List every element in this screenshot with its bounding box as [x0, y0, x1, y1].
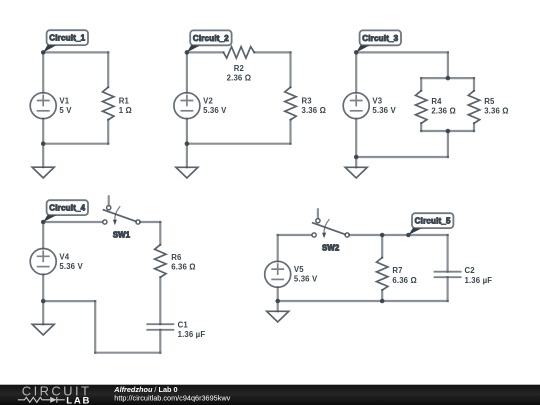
- node bottom left C5: [275, 299, 280, 304]
- voltage source V3: [343, 93, 369, 119]
- label R4 2.36 ohm: [431, 97, 456, 116]
- label V4 5.36 V: [59, 252, 83, 271]
- svg-text:5.36 V: 5.36 V: [294, 275, 318, 284]
- wire C2 bottom: [447, 277, 449, 301]
- resistor R5: [468, 91, 479, 124]
- wire right branch to R3: [289, 52, 291, 87]
- wire C1 bottom: [159, 330, 161, 353]
- wire bottom rail C5: [278, 300, 448, 302]
- wire top rail left C2: [187, 51, 224, 53]
- svg-text:R2: R2: [234, 64, 245, 73]
- svg-text:LAB: LAB: [66, 395, 91, 405]
- label V1 5 V: [59, 97, 72, 116]
- wire R7 bottom: [381, 290, 383, 301]
- wire right branch to R1: [107, 52, 109, 87]
- node parallel bottom: [446, 129, 451, 134]
- callout Circuit_3: [356, 30, 401, 52]
- svg-text:R5: R5: [484, 97, 495, 106]
- wire R3 bottom: [289, 120, 291, 144]
- wire R1 bottom: [107, 120, 109, 144]
- svg-text:6.36 Ω: 6.36 Ω: [171, 262, 196, 271]
- ground: [32, 144, 54, 178]
- wire bottom rail C1: [43, 143, 108, 145]
- wire bottom rail C2: [187, 143, 291, 145]
- node callout anchor C5: [406, 233, 411, 238]
- wire bottom rail right C4: [95, 352, 160, 354]
- label R2 2.36 ohm: [227, 64, 252, 83]
- node bottom C1: [41, 141, 46, 146]
- wire top rail C1: [43, 51, 108, 53]
- svg-text:C2: C2: [465, 266, 476, 275]
- svg-text:1.36 µF: 1.36 µF: [465, 276, 493, 285]
- node R7 top: [380, 233, 385, 238]
- node top C4: [41, 220, 46, 225]
- wire top rail C4: [43, 221, 103, 223]
- svg-text:3.36 Ω: 3.36 Ω: [302, 106, 327, 115]
- voltage source V5: [265, 261, 291, 287]
- svg-text:5.36 V: 5.36 V: [59, 262, 83, 271]
- node top C1: [41, 50, 46, 55]
- ground: [32, 301, 54, 335]
- wire V3 bottom: [355, 119, 357, 157]
- wire V2 bottom: [186, 119, 188, 144]
- voltage source V2: [174, 93, 200, 119]
- wire left branch to V5: [277, 235, 279, 261]
- svg-text:http://circuitlab.com/c94q6r36: http://circuitlab.com/c94q6r3695kwv: [114, 394, 230, 403]
- svg-text:5 V: 5 V: [59, 106, 72, 115]
- callout Circuit_5: [408, 213, 453, 235]
- footer bar: [0, 383, 540, 405]
- node bottom C2: [185, 141, 190, 146]
- wire left branch to V2: [186, 52, 188, 92]
- label C2 1.36 uF: [465, 266, 493, 285]
- svg-text:SW2: SW2: [322, 243, 340, 252]
- svg-text:Circuit_4: Circuit_4: [49, 204, 85, 213]
- wire R4 bottom stub: [420, 123, 422, 131]
- label C1 1.36 uF: [178, 320, 206, 339]
- wire R4 top stub: [420, 78, 422, 91]
- svg-text:5.36 V: 5.36 V: [203, 106, 227, 115]
- wire mid branch down: [447, 52, 449, 78]
- wire bottom rail left C4: [43, 300, 95, 302]
- callout Circuit_4: [43, 200, 88, 222]
- wire V5 bottom: [277, 287, 279, 301]
- svg-text:SW1: SW1: [113, 230, 131, 239]
- svg-text:R3: R3: [302, 97, 313, 106]
- node parallel top: [446, 76, 451, 81]
- switch SW2: [312, 209, 349, 238]
- node R7 bottom: [380, 299, 385, 304]
- label R1 1 ohm: [119, 97, 132, 116]
- resistor R6: [155, 245, 166, 278]
- label V5 5.36 V: [294, 265, 318, 284]
- svg-text:Circuit_5: Circuit_5: [415, 217, 451, 226]
- svg-text:1 Ω: 1 Ω: [119, 106, 132, 115]
- wire left branch to V3: [355, 52, 357, 92]
- wire right branch to R6: [159, 222, 161, 245]
- ground: [176, 144, 198, 178]
- svg-text:C1: C1: [178, 320, 189, 329]
- wire top rail right C2: [254, 51, 290, 53]
- wire left branch to V4: [42, 222, 44, 249]
- wire V1 bottom: [42, 119, 44, 144]
- logo schematic glyph: [18, 397, 65, 403]
- wire R6 to C1: [159, 277, 161, 324]
- wire R5 top stub: [473, 78, 475, 91]
- node bottom C4: [41, 299, 46, 304]
- svg-text:R7: R7: [392, 266, 402, 275]
- switch SW1: [103, 196, 140, 225]
- wire parallel top bar: [421, 77, 474, 79]
- label R5 3.36 ohm: [484, 97, 509, 116]
- wire switch right to corner: [140, 221, 160, 223]
- resistor R4: [416, 91, 427, 124]
- label V3 5.36 V: [372, 97, 396, 116]
- node top C3: [354, 50, 359, 55]
- callout Circuit_1: [43, 30, 88, 52]
- wire R5 bottom stub: [473, 123, 475, 131]
- resistor R7: [377, 258, 388, 291]
- wire R7 top: [381, 235, 383, 258]
- label V2 5.36 V: [203, 97, 227, 116]
- resistor R3: [285, 87, 296, 120]
- wire mid branch bottom: [447, 131, 449, 157]
- wire top rail C3: [356, 51, 448, 53]
- voltage source V1: [30, 93, 56, 119]
- svg-text:V4: V4: [59, 252, 69, 261]
- svg-text:R1: R1: [119, 97, 130, 106]
- svg-text:R4: R4: [431, 97, 442, 106]
- wire bottom riser C4: [94, 301, 96, 353]
- svg-text:V2: V2: [203, 97, 213, 106]
- wire top rail left C5: [278, 234, 312, 236]
- label R3 3.36 ohm: [302, 97, 327, 116]
- capacitor C1: [147, 324, 173, 330]
- svg-text:V3: V3: [372, 97, 382, 106]
- voltage source V4: [30, 249, 56, 275]
- svg-text:V5: V5: [294, 265, 304, 274]
- node top C2: [185, 50, 190, 55]
- svg-text:R6: R6: [171, 253, 182, 262]
- wire V4 bottom: [42, 275, 44, 302]
- svg-text:V1: V1: [59, 97, 69, 106]
- svg-text:Circuit_1: Circuit_1: [49, 34, 85, 43]
- wire bottom rail C3: [356, 156, 448, 158]
- node bottom C3: [354, 155, 359, 160]
- label R7 6.36 ohm: [392, 266, 417, 285]
- svg-text:2.36 Ω: 2.36 Ω: [227, 74, 252, 83]
- wire left branch to V1: [42, 52, 44, 92]
- wire parallel bottom bar: [421, 130, 474, 132]
- ground: [345, 157, 367, 178]
- svg-text:Circuit_3: Circuit_3: [362, 34, 398, 43]
- svg-text:1.36 µF: 1.36 µF: [178, 330, 206, 339]
- svg-text:3.36 Ω: 3.36 Ω: [484, 107, 509, 116]
- resistor R2: [224, 47, 255, 58]
- wire top rail right C5: [349, 234, 447, 236]
- capacitor C2: [435, 272, 461, 278]
- resistor R1: [103, 87, 114, 120]
- wire C2 top: [447, 235, 449, 272]
- ground: [267, 301, 289, 322]
- callout Circuit_2: [187, 30, 232, 52]
- svg-text:6.36 Ω: 6.36 Ω: [392, 276, 417, 285]
- svg-text:5.36 V: 5.36 V: [372, 106, 396, 115]
- svg-text:Circuit_2: Circuit_2: [193, 34, 229, 43]
- svg-text:2.36 Ω: 2.36 Ω: [431, 107, 456, 116]
- label R6 6.36 ohm: [171, 253, 196, 272]
